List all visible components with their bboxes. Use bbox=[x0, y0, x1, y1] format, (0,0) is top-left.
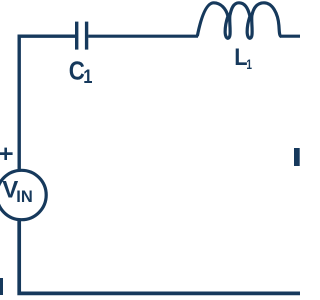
capacitor C1 left plate bbox=[75, 22, 78, 50]
label 1 subscript of C1 bbox=[83, 66, 92, 88]
resistor label R fragment at right edge bbox=[294, 148, 300, 166]
svg-text:1: 1 bbox=[246, 57, 252, 73]
plus sign vertical stroke bbox=[4, 148, 7, 160]
label C of C1 bbox=[69, 57, 85, 86]
wire top-left corner: top wire to capacitor, left vertical down to source bbox=[19, 36, 75, 171]
capacitor C1 right plate bbox=[85, 22, 88, 50]
label fragment at left edge near ground rail bbox=[0, 278, 3, 295]
label L of L1 bbox=[234, 43, 247, 70]
label IN subscript of VIN bbox=[16, 188, 33, 206]
svg-text:1: 1 bbox=[83, 66, 92, 88]
inductor L1 bbox=[197, 3, 281, 38]
voltage source V_IN circle bbox=[0, 170, 46, 219]
svg-text:IN: IN bbox=[16, 188, 33, 206]
svg-text:C: C bbox=[69, 57, 85, 86]
plus sign horizontal stroke bbox=[0, 152, 13, 155]
wire inductor to right edge bbox=[280, 35, 300, 38]
wire capacitor to inductor bbox=[88, 35, 198, 38]
label 1 subscript of L1 bbox=[246, 57, 252, 73]
wire source bottom to ground rail bbox=[19, 219, 300, 293]
svg-text:L: L bbox=[234, 43, 247, 70]
label V of VIN bbox=[2, 177, 18, 204]
